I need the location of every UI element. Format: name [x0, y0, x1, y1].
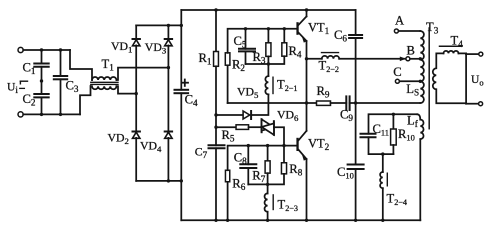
svg-text:C6: C6: [334, 28, 347, 44]
svg-text:Lf: Lf: [407, 114, 419, 130]
svg-text:VT2: VT2: [308, 137, 330, 153]
svg-text:T1: T1: [102, 57, 115, 73]
svg-text:VD6: VD6: [277, 108, 299, 124]
svg-text:Uo: Uo: [471, 74, 484, 88]
svg-text:C9: C9: [340, 108, 353, 124]
svg-text:B: B: [407, 44, 415, 58]
svg-text:VD1: VD1: [111, 39, 132, 55]
svg-text:R9: R9: [317, 84, 330, 100]
svg-text:R6: R6: [232, 176, 245, 192]
svg-text:VD5: VD5: [237, 84, 259, 100]
svg-text:R5: R5: [222, 128, 235, 144]
svg-text:C: C: [393, 65, 401, 79]
svg-text:C3: C3: [66, 79, 79, 95]
svg-text:VD4: VD4: [140, 139, 162, 155]
svg-text:T2−4: T2−4: [387, 192, 408, 208]
svg-text:VT1: VT1: [308, 21, 330, 37]
svg-text:R8: R8: [289, 162, 302, 178]
svg-text:T2−3: T2−3: [278, 198, 299, 214]
svg-text:LS: LS: [406, 82, 419, 98]
svg-text:R2: R2: [232, 58, 245, 74]
svg-text:A: A: [395, 14, 404, 28]
svg-text:T3: T3: [426, 20, 439, 36]
svg-text:R4: R4: [289, 44, 302, 60]
svg-text:Ui: Ui: [7, 82, 18, 96]
svg-text:C11: C11: [373, 122, 389, 138]
svg-text:C4: C4: [185, 93, 198, 109]
svg-text:R10: R10: [398, 127, 415, 143]
svg-text:T2−2: T2−2: [319, 59, 340, 75]
svg-text:R7: R7: [252, 169, 265, 185]
svg-text:C7: C7: [195, 144, 208, 160]
svg-text:VD2: VD2: [108, 131, 129, 147]
svg-text:T2−1: T2−1: [277, 78, 298, 94]
svg-text:VD3: VD3: [145, 40, 167, 56]
svg-text:R1: R1: [199, 51, 212, 67]
svg-text:R3: R3: [253, 50, 266, 66]
svg-text:T4: T4: [451, 34, 464, 50]
svg-text:C8: C8: [234, 150, 247, 166]
svg-text:C10: C10: [337, 165, 354, 181]
